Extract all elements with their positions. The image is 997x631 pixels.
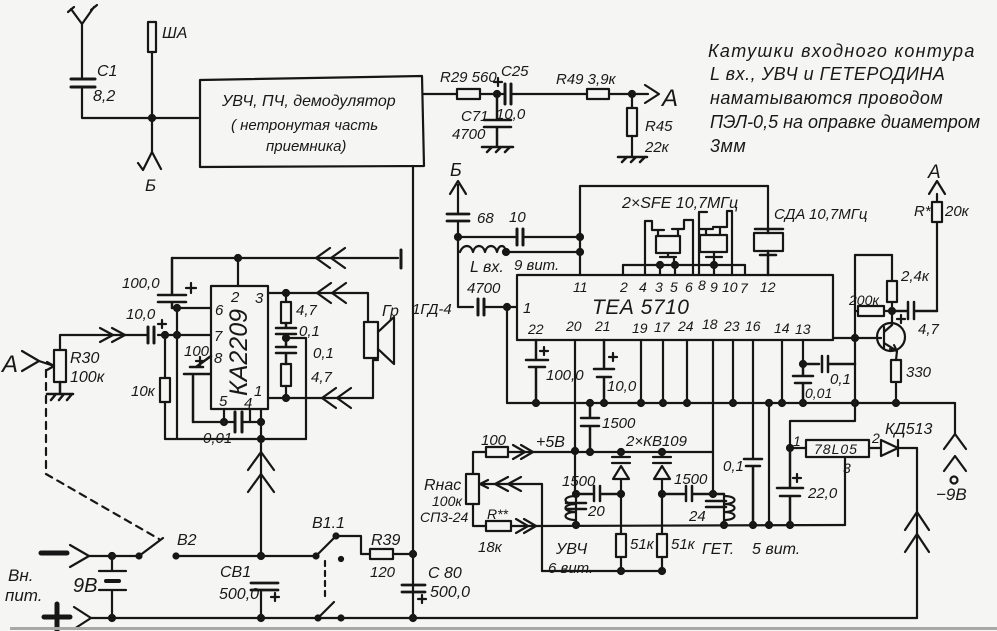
svg-text:18: 18: [702, 316, 718, 332]
wire top rail pin2: [172, 257, 398, 259]
wire minus rail: [89, 555, 139, 557]
svg-text:4700: 4700: [467, 280, 501, 297]
resistor 10к: [164, 335, 166, 378]
svg-text:19: 19: [632, 320, 648, 336]
switch B2: [137, 554, 142, 559]
wiper arrow Rнас: [479, 480, 542, 488]
terminal plus: [44, 604, 70, 630]
voltage regulator U3 78L05: [806, 440, 869, 457]
wire pin5 row: [193, 421, 261, 423]
connector chevrons wiper: [495, 477, 521, 491]
ceramic filter Z1 SFE body: [656, 236, 680, 253]
svg-text:20: 20: [565, 318, 582, 334]
svg-text:Катушки входного контура: Катушки входного контура: [708, 41, 976, 61]
svg-text:4,7: 4,7: [918, 321, 940, 338]
capacitor CB1: [251, 583, 278, 590]
connector Б arrow: [450, 181, 466, 213]
terminal bar top rail: [400, 250, 403, 268]
node pin9 bus: [711, 262, 717, 268]
node 769 bus: [766, 400, 772, 406]
node pin1 bottom: [258, 419, 264, 425]
node tank УВЧ bottom: [573, 522, 579, 528]
svg-text:3мм: 3мм: [710, 136, 746, 156]
label plus pin21 cap: [609, 353, 617, 361]
capacitor 0,01: [235, 412, 242, 432]
svg-text:8: 8: [698, 277, 706, 293]
wire pin20 through: [574, 340, 576, 451]
capacitor 4,7 output: [892, 302, 937, 319]
svg-text:4,7: 4,7: [296, 302, 318, 319]
svg-text:R49 3,9к: R49 3,9к: [556, 71, 617, 88]
svg-text:2,4к: 2,4к: [900, 268, 930, 285]
connector chevrons +5В: [513, 445, 533, 459]
resistor 4,7 bottom: [281, 364, 291, 386]
wire bottom rail: [165, 438, 306, 440]
node battery top: [109, 553, 115, 559]
label plus 10,0: [158, 320, 166, 328]
capacitor input to pin1: [478, 299, 484, 315]
svg-text:Гр: Гр: [382, 303, 399, 320]
node pin23 bus: [730, 400, 736, 406]
svg-text:22к: 22к: [644, 139, 670, 156]
wire 51к rail: [542, 570, 663, 572]
svg-text:120: 120: [370, 564, 396, 581]
svg-text:10,0: 10,0: [126, 306, 156, 323]
svg-text:1: 1: [793, 433, 801, 449]
node pin19 bus: [638, 400, 644, 406]
label plus 22,0: [793, 474, 801, 482]
ground R30: [47, 382, 73, 400]
svg-text:500,0: 500,0: [430, 584, 470, 601]
node pin1 78L05: [787, 445, 793, 451]
svg-text:5: 5: [670, 279, 678, 295]
svg-text:C25: C25: [501, 63, 529, 80]
IC U1 TEA5710 box: [517, 275, 833, 340]
svg-text:3: 3: [255, 290, 264, 307]
wire pin6: [172, 307, 211, 309]
wire pin4 stub: [249, 409, 251, 422]
node C25: [494, 91, 500, 97]
switch B1.1: [314, 554, 319, 559]
connector chevron plus: [74, 607, 91, 629]
svg-text:23: 23: [723, 318, 740, 334]
battery GB1: [99, 556, 126, 618]
wire pin3 stub: [659, 265, 661, 275]
filter Z2 bottom lead: [706, 252, 722, 265]
svg-text:24: 24: [677, 318, 694, 334]
connector A right arrow: [929, 181, 945, 194]
wire pot top to resistor 100: [473, 452, 486, 474]
node pin24 bus: [684, 400, 690, 406]
svg-text:1: 1: [254, 383, 262, 400]
svg-text:4700: 4700: [452, 126, 486, 143]
svg-text:6: 6: [215, 302, 224, 319]
node 1500 top: [587, 400, 593, 406]
node chain top: [283, 290, 289, 296]
svg-text:ШA: ШA: [162, 25, 187, 42]
capacitor C71: [484, 94, 511, 146]
svg-text:В2: В2: [177, 532, 197, 549]
svg-text:CДA 10,7МГц: CДA 10,7МГц: [774, 206, 868, 223]
block receiver box УВЧ ПЧ демодулятор: [200, 76, 424, 167]
wire B2 to B1.1: [176, 555, 316, 557]
resistor 51к second: [661, 494, 663, 534]
capacitor C25: [505, 84, 511, 104]
wire CB1 to rail: [260, 590, 262, 618]
node chain mid: [283, 335, 289, 341]
svg-text:КА2209: КА2209: [225, 309, 253, 396]
wire +5В feed: [508, 451, 713, 453]
svg-text:8,2: 8,2: [93, 88, 115, 105]
node junction antenna: [149, 115, 155, 121]
wire wiper down to 51к rail: [541, 484, 543, 571]
svg-text:1500: 1500: [562, 473, 596, 490]
svg-text:2×SFE 10,7МГц: 2×SFE 10,7МГц: [621, 195, 738, 212]
node inductor right: [503, 249, 509, 255]
svg-text:ТЕА 5710: ТЕА 5710: [592, 296, 689, 319]
svg-text:УВЧ: УВЧ: [555, 541, 587, 558]
tank ГЕТ coil L2: [724, 494, 735, 525]
wire pin2 stub: [622, 265, 624, 275]
node battery bottom: [109, 615, 115, 621]
resistor 200к: [855, 310, 892, 312]
resistor R**: [473, 504, 486, 526]
node pin11 lower: [577, 249, 583, 255]
svg-text:4,7: 4,7: [311, 369, 333, 386]
node collector: [889, 308, 895, 314]
filter Z1 left lead: [645, 221, 664, 275]
svg-text:9: 9: [710, 279, 718, 295]
wire pin7 stub: [744, 265, 746, 275]
node pin6 branch: [174, 305, 180, 311]
node 22,0 bottom: [787, 522, 793, 528]
wire pin5 stub: [674, 265, 676, 275]
resistor R*: [936, 222, 938, 311]
label plus 100: [196, 357, 204, 365]
node pin14 bus: [779, 400, 785, 406]
wire pin20 to tank: [574, 451, 576, 494]
label plus 100,0: [186, 283, 196, 293]
wire pin14: [781, 340, 783, 403]
node pin2: [235, 255, 241, 261]
wire pin23: [732, 340, 734, 403]
svg-text:Б: Б: [450, 160, 462, 180]
svg-text:R45: R45: [645, 118, 673, 135]
svg-text:Б: Б: [145, 176, 156, 195]
node varicap2 bottom: [659, 491, 665, 497]
connector chevrons -9В: [944, 434, 966, 471]
node pin5: [221, 419, 227, 425]
capacitor 10,0 pin21: [594, 340, 614, 403]
capacitor 1500 supply: [581, 403, 599, 452]
ground bus under TEA: [507, 402, 955, 404]
svg-text:( нетронутая часть: ( нетронутая часть: [231, 117, 378, 134]
svg-text:3: 3: [655, 279, 663, 295]
svg-text:100: 100: [481, 432, 507, 449]
varicap VD2 КВ109: [653, 452, 671, 494]
svg-text:R30: R30: [70, 350, 99, 367]
node pin13 bus: [800, 400, 806, 406]
svg-text:12: 12: [760, 279, 776, 295]
svg-text:УВЧ, ПЧ, демодулятор: УВЧ, ПЧ, демодулятор: [221, 93, 396, 110]
resistor R29: [457, 89, 480, 99]
wire C1 to node: [82, 87, 198, 118]
svg-text:1ГД-4: 1ГД-4: [412, 301, 452, 318]
op-amp IC U2 KA2209 box: [211, 286, 268, 409]
svg-text:18к: 18к: [478, 539, 503, 556]
svg-text:C1: C1: [97, 63, 117, 80]
connector Б fork: [138, 118, 161, 170]
svg-text:200к: 200к: [848, 292, 880, 308]
svg-text:51к: 51к: [671, 536, 696, 553]
svg-text:6: 6: [685, 279, 693, 295]
svg-text:C71: C71: [461, 108, 489, 125]
svg-text:2: 2: [871, 430, 880, 446]
connector chevrons pin3: [317, 283, 346, 303]
filter Z1 bottom lead: [660, 253, 676, 265]
capacitor 20: [566, 503, 586, 509]
capacitor 0,1 pin16: [744, 459, 762, 525]
scanner edge band: [10, 627, 997, 630]
capacitor 68: [447, 214, 469, 221]
capacitor C80: [402, 585, 425, 592]
node chain bottom: [283, 395, 289, 401]
resistor 330: [891, 360, 901, 382]
wire input pin7: [60, 335, 211, 350]
connector chevron minus: [70, 545, 89, 567]
svg-text:6 вит.: 6 вит.: [548, 560, 593, 577]
svg-text:0,1: 0,1: [723, 458, 744, 475]
svg-text:7: 7: [214, 328, 223, 345]
wire C25 to R49: [511, 93, 587, 95]
node 51к first rail: [618, 568, 624, 574]
wire pin13: [802, 340, 804, 364]
ceramic resonator CDA: [755, 229, 783, 233]
label plus 4,7: [897, 315, 905, 323]
svg-text:10: 10: [509, 209, 526, 226]
svg-text:10к: 10к: [131, 383, 156, 400]
capacitor 0,1 second: [276, 338, 296, 364]
connector chevrons pin1: [322, 388, 351, 408]
wire pin1 down long: [260, 409, 262, 555]
antenna W1: [68, 5, 97, 79]
svg-text:А: А: [0, 351, 18, 378]
svg-text:78L05: 78L05: [814, 441, 858, 457]
node 177 pin7: [174, 332, 180, 338]
wire filter ground bus: [623, 264, 745, 266]
capacitor C1: [71, 79, 95, 87]
connector chevrons input: [100, 328, 125, 342]
wire to cap 10: [458, 236, 515, 238]
svg-text:КД513: КД513: [885, 421, 932, 438]
node pin22 bus: [533, 400, 539, 406]
wire long vertical divider: [412, 166, 414, 618]
wire pin1 78L05: [790, 447, 806, 449]
wire pin1 out: [268, 360, 378, 398]
svg-text:2: 2: [619, 279, 628, 295]
node R45: [629, 91, 635, 97]
filter Z2 left lead down pin8: [698, 229, 700, 275]
wire pin9 stub: [713, 265, 715, 275]
connector chevrons down to CB1: [248, 452, 274, 492]
resistor 2,4к: [891, 255, 893, 281]
svg-text:20к: 20к: [944, 203, 970, 220]
connector chevrons tune: [516, 519, 536, 533]
potentiometer Rнас: [466, 474, 479, 504]
svg-text:5 вит.: 5 вит.: [752, 541, 800, 558]
node pin21 bus: [601, 400, 607, 406]
capacitor 0,01 pin13: [793, 364, 813, 403]
node 51к second rail: [659, 568, 665, 574]
node varicap1 top: [618, 449, 624, 455]
node varicap1 bottom: [618, 491, 624, 497]
label plus C25: [494, 78, 502, 86]
svg-text:14: 14: [774, 320, 790, 336]
dashed wire R30 wiper to B2: [46, 370, 159, 539]
svg-text:ПЭЛ-0,5 на оправке диаметром: ПЭЛ-0,5 на оправке диаметром: [710, 112, 980, 132]
wire loop top: [855, 254, 892, 256]
svg-text:А: А: [660, 85, 678, 112]
node CB1 bottom: [258, 615, 264, 621]
node pin3 bus: [657, 262, 663, 268]
potentiometer R30: [54, 350, 66, 382]
capacitor 10: [517, 229, 523, 245]
wire pin3 78L05 down: [844, 457, 846, 525]
svg-text:R29 560: R29 560: [440, 69, 497, 86]
connector chevron А input: [22, 351, 39, 371]
wire diode output down: [916, 448, 918, 618]
svg-text:R*: R*: [914, 203, 932, 220]
capacitor 1500 ГЕТ: [662, 486, 724, 501]
wire cap 10 to pin11: [523, 236, 580, 238]
svg-text:ГЕТ.: ГЕТ.: [702, 541, 734, 558]
svg-text:R39: R39: [371, 532, 400, 549]
wire input column: [458, 221, 473, 307]
svg-text:22,0: 22,0: [807, 485, 838, 502]
node bias bus cross: [852, 400, 858, 406]
svg-text:10,0: 10,0: [607, 378, 637, 395]
resistor R49: [587, 89, 609, 99]
capacitor 0,1 first: [276, 323, 296, 338]
svg-text:наматываются проводом: наматываются проводом: [710, 88, 943, 108]
filter Z2 left lead: [699, 212, 713, 235]
wire ША to node: [151, 52, 153, 118]
label plus C80: [418, 595, 426, 603]
svg-text:5: 5: [219, 393, 228, 410]
node cap10 left: [455, 234, 461, 240]
wire pin2 stub: [237, 258, 239, 286]
svg-text:СВ1: СВ1: [220, 564, 251, 581]
connector chevrons top rail: [316, 248, 345, 268]
svg-text:Вн.: Вн.: [8, 566, 33, 585]
node pin13: [800, 361, 806, 367]
node R39 C80: [410, 551, 416, 557]
resistor 100: [486, 447, 508, 457]
wire tune line: [511, 525, 845, 526]
capacitor 10,0 input: [148, 327, 154, 343]
svg-text:+5В: +5В: [536, 434, 565, 451]
svg-text:100: 100: [184, 343, 210, 360]
node rail 413: [410, 615, 416, 621]
svg-text:17: 17: [654, 319, 671, 335]
capacitor 22,0: [777, 448, 803, 525]
wire base from TEA: [833, 337, 881, 339]
capacitor 100,0 pin22: [526, 340, 548, 403]
node pin11 upper: [577, 234, 583, 240]
svg-text:9В: 9В: [73, 575, 97, 597]
node 330 bus: [893, 400, 899, 406]
diode VD3 КД513: [869, 440, 917, 456]
svg-text:100,0: 100,0: [546, 367, 584, 384]
svg-text:100к: 100к: [70, 369, 106, 386]
wire pin24: [686, 340, 688, 403]
node CB1 top: [258, 553, 264, 559]
resistor 4,7 top: [285, 293, 287, 302]
svg-text:0,01: 0,01: [805, 385, 832, 401]
svg-text:13: 13: [795, 321, 811, 337]
filter Z2 right lead: [713, 211, 732, 275]
svg-text:24: 24: [688, 508, 706, 525]
wire pin18 through: [712, 340, 714, 494]
node 769 lower: [766, 522, 772, 528]
svg-text:1500: 1500: [674, 471, 708, 488]
node tank ГЕТ bottom: [721, 522, 727, 528]
wire R49 to node A: [609, 93, 648, 95]
wire inductor to pin11: [506, 251, 580, 253]
svg-text:L вх.: L вх.: [470, 259, 504, 276]
connector chevrons 917: [905, 512, 929, 552]
ground R45: [618, 157, 647, 162]
node 1500 bottom: [587, 449, 593, 455]
wire pin19: [640, 340, 642, 403]
wire pin5 stub: [223, 409, 225, 422]
connector A arrow: [645, 85, 659, 103]
svg-text:16: 16: [745, 318, 761, 334]
svg-text:приемника): приемника): [266, 138, 346, 155]
svg-text:22: 22: [527, 321, 544, 337]
svg-text:Rнас: Rнас: [424, 477, 461, 494]
resistor 51к first: [620, 494, 622, 534]
node pin17 bus: [660, 400, 666, 406]
svg-text:7: 7: [740, 280, 749, 296]
wire bus end down: [954, 403, 956, 434]
node pin20 +5В: [572, 448, 578, 454]
svg-text:8: 8: [214, 350, 223, 367]
wire box to R29: [424, 93, 457, 95]
svg-text:21: 21: [594, 318, 611, 334]
terminal minus: [41, 551, 67, 556]
inductor L вх: [460, 246, 506, 252]
ground C71: [482, 147, 513, 152]
wire bias column: [790, 255, 855, 448]
svg-text:R**: R**: [487, 506, 509, 522]
wire pin17: [662, 340, 664, 403]
tank УВЧ coil L1: [566, 494, 577, 525]
node varicap2 top: [659, 449, 665, 455]
capacitor 100,0 supply: [158, 258, 186, 308]
node pin16 lower: [750, 522, 756, 528]
transistor Q1: [877, 323, 905, 351]
label plus pin22 cap: [540, 347, 548, 355]
svg-text:1: 1: [523, 300, 531, 317]
svg-text:С 80: С 80: [428, 565, 462, 582]
wire frame to CDA: [767, 186, 769, 229]
node pin5 bus: [672, 262, 678, 268]
svg-text:А: А: [927, 162, 941, 183]
varicap VD1 КВ109: [612, 452, 630, 494]
node 10к top: [162, 332, 168, 338]
capacitor 100 pin8: [184, 356, 211, 422]
